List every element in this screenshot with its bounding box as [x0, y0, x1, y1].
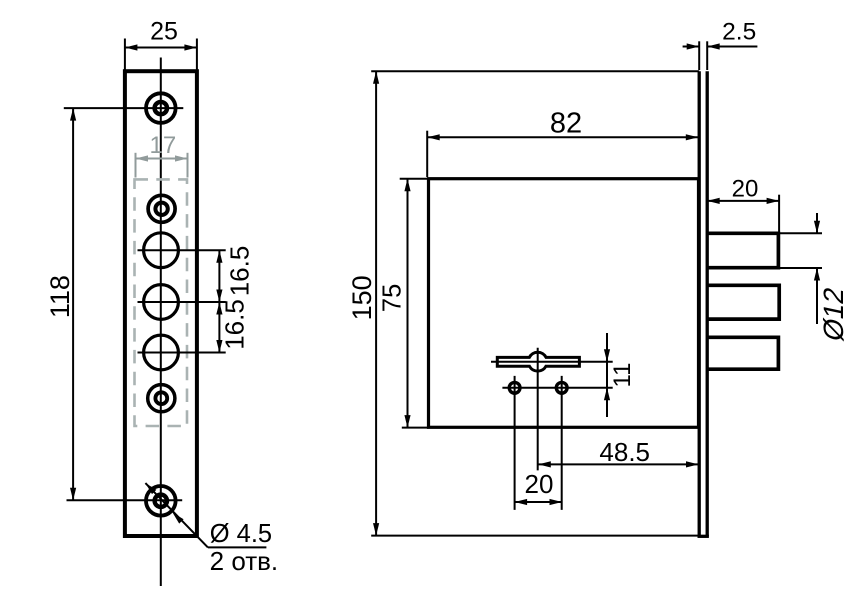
mounting hole top outer circle	[146, 93, 176, 123]
leader line to mounting hole	[145, 483, 208, 547]
screw holes horizontal centerline	[502, 387, 612, 389]
dim 20 screws line	[515, 501, 562, 503]
dim 150 arrow bottom	[373, 523, 379, 536]
dim 2.5 right line	[707, 46, 757, 48]
svg-text:Ø 4.5: Ø 4.5	[210, 520, 272, 548]
dim 25 line	[125, 47, 197, 49]
dim 12 bottom extension line	[780, 267, 822, 269]
dim 17 arrow left	[136, 155, 149, 161]
dim 25 extension line left	[124, 39, 126, 70]
small hole upper inner circle	[155, 203, 167, 215]
dim 82 arrow left	[427, 134, 440, 140]
dim 11 arrow up	[604, 388, 610, 401]
svg-text:Ø12: Ø12	[817, 284, 849, 344]
svg-text:16.5: 16.5	[220, 299, 250, 350]
leader arrow upper	[145, 483, 156, 494]
dim 20 bolt arrow left	[707, 198, 720, 204]
dim 17 line	[136, 158, 188, 160]
dim 20 screws arrow right	[550, 499, 563, 505]
dim 2.5 left line	[683, 46, 700, 48]
body top edge extension	[400, 178, 429, 180]
dim 25 arrow right	[184, 44, 197, 50]
bolt 2 outline	[707, 285, 779, 319]
dim 20 bolt extension line	[778, 195, 780, 232]
faceplate side view left line	[698, 71, 701, 536]
svg-text:150: 150	[347, 275, 377, 320]
svg-text:20: 20	[732, 176, 759, 203]
faceplate front view outline	[125, 71, 197, 536]
lock body outline	[429, 179, 699, 428]
dim 16.5 arrow 1 top	[216, 250, 222, 263]
dim 75 arrow bottom	[404, 415, 410, 428]
screw hole left circle	[509, 382, 520, 393]
dim 12 lower arrow line	[816, 268, 818, 324]
dim 48.5 arrow right	[686, 461, 699, 467]
dim 82 extension line	[426, 131, 428, 177]
svg-text:20: 20	[525, 469, 554, 499]
large hole 1 centerline	[138, 249, 226, 251]
dashed cutout zone rectangle	[135, 179, 188, 426]
dim 16.5 arrow 2 top	[216, 302, 222, 315]
dim 12 arrow up	[814, 268, 820, 281]
small hole lower inner circle	[155, 392, 167, 404]
bolt 3 outline	[707, 337, 778, 369]
large hole 3 centerline	[138, 352, 226, 354]
leader underline	[208, 546, 267, 548]
svg-text:75: 75	[379, 284, 407, 312]
faceplate thickness extension right	[706, 41, 708, 70]
dim 20 bolt line	[707, 200, 779, 202]
dim 20 screws arrow left	[515, 499, 528, 505]
svg-text:82: 82	[550, 108, 582, 140]
dim 118 line	[72, 108, 74, 500]
large hole 3 circle	[144, 335, 179, 370]
svg-text:11: 11	[609, 363, 636, 388]
dim 12 arrow down	[814, 221, 820, 234]
large hole 2 centerline	[138, 301, 226, 303]
dim 150 line	[375, 71, 377, 535]
dim 48.5 arrow left	[538, 461, 551, 467]
bolt 1 outline	[707, 233, 778, 267]
dim 2.5 arrow right	[707, 43, 720, 49]
faceplate vertical centerline	[160, 58, 162, 587]
dim 20 bolt arrow right	[767, 198, 780, 204]
faceplate thickness extension left	[698, 41, 700, 70]
leader arrow at hole edge	[173, 513, 184, 524]
dim 75 line	[407, 179, 409, 428]
dim 12 top extension line	[780, 232, 822, 234]
screw hole left vertical centerline	[514, 376, 516, 510]
dim 16.5 arrow 2 bottom	[216, 340, 222, 353]
key cylinder vertical centerline	[537, 348, 539, 471]
dim 82 arrow right	[686, 134, 699, 140]
dim 150 bottom extension line	[371, 535, 699, 537]
large hole 1 circle	[144, 233, 179, 268]
dim 48.5 line	[538, 463, 698, 465]
small hole lower outer circle	[148, 385, 175, 412]
svg-text:118: 118	[45, 275, 75, 318]
dim 150 top extension line	[371, 70, 699, 72]
mounting hole top horizontal centerline	[64, 107, 184, 109]
mounting hole top inner circle	[155, 102, 167, 114]
key cylinder profile outline	[497, 352, 579, 371]
screw hole right circle	[556, 382, 567, 393]
mounting hole bottom horizontal centerline	[67, 499, 183, 501]
dim 118 arrow bottom	[70, 488, 76, 501]
screw hole right vertical centerline	[561, 376, 563, 510]
dim 17 extension line left	[135, 153, 137, 178]
dim 17 extension line right	[187, 153, 189, 178]
faceplate side view right line	[706, 71, 709, 536]
dim 25 arrow left	[125, 44, 137, 50]
svg-text:25: 25	[150, 18, 178, 46]
svg-text:48.5: 48.5	[599, 437, 650, 467]
svg-text:17: 17	[150, 132, 177, 159]
dim 150 arrow top	[373, 71, 379, 84]
dim 11 arrow down	[604, 349, 610, 362]
small hole upper outer circle	[148, 195, 175, 222]
large hole 2 circle	[144, 285, 179, 320]
key cylinder horizontal centerline	[491, 361, 613, 363]
mounting hole bottom inner circle	[155, 495, 167, 507]
faceplate side view bottom cap	[698, 535, 709, 538]
svg-text:2 отв.: 2 отв.	[210, 546, 279, 576]
dim 25 extension line right	[196, 39, 198, 70]
dim 11 line	[606, 333, 608, 417]
svg-text:2.5: 2.5	[722, 18, 756, 45]
mounting hole bottom outer circle	[146, 486, 176, 516]
dim 118 arrow top	[70, 108, 76, 121]
svg-text:16.5: 16.5	[224, 246, 254, 297]
dim 75 arrow top	[404, 179, 410, 192]
dim 17 arrow right	[175, 155, 188, 161]
dim 16.5 arrow 1 bottom	[216, 290, 222, 303]
dim 82 line	[427, 136, 698, 138]
dim 16.5 line	[218, 250, 220, 352]
dim 2.5 arrow left	[687, 43, 700, 49]
dim 12 upper arrow line	[816, 213, 818, 233]
body bottom edge extension	[402, 427, 429, 429]
